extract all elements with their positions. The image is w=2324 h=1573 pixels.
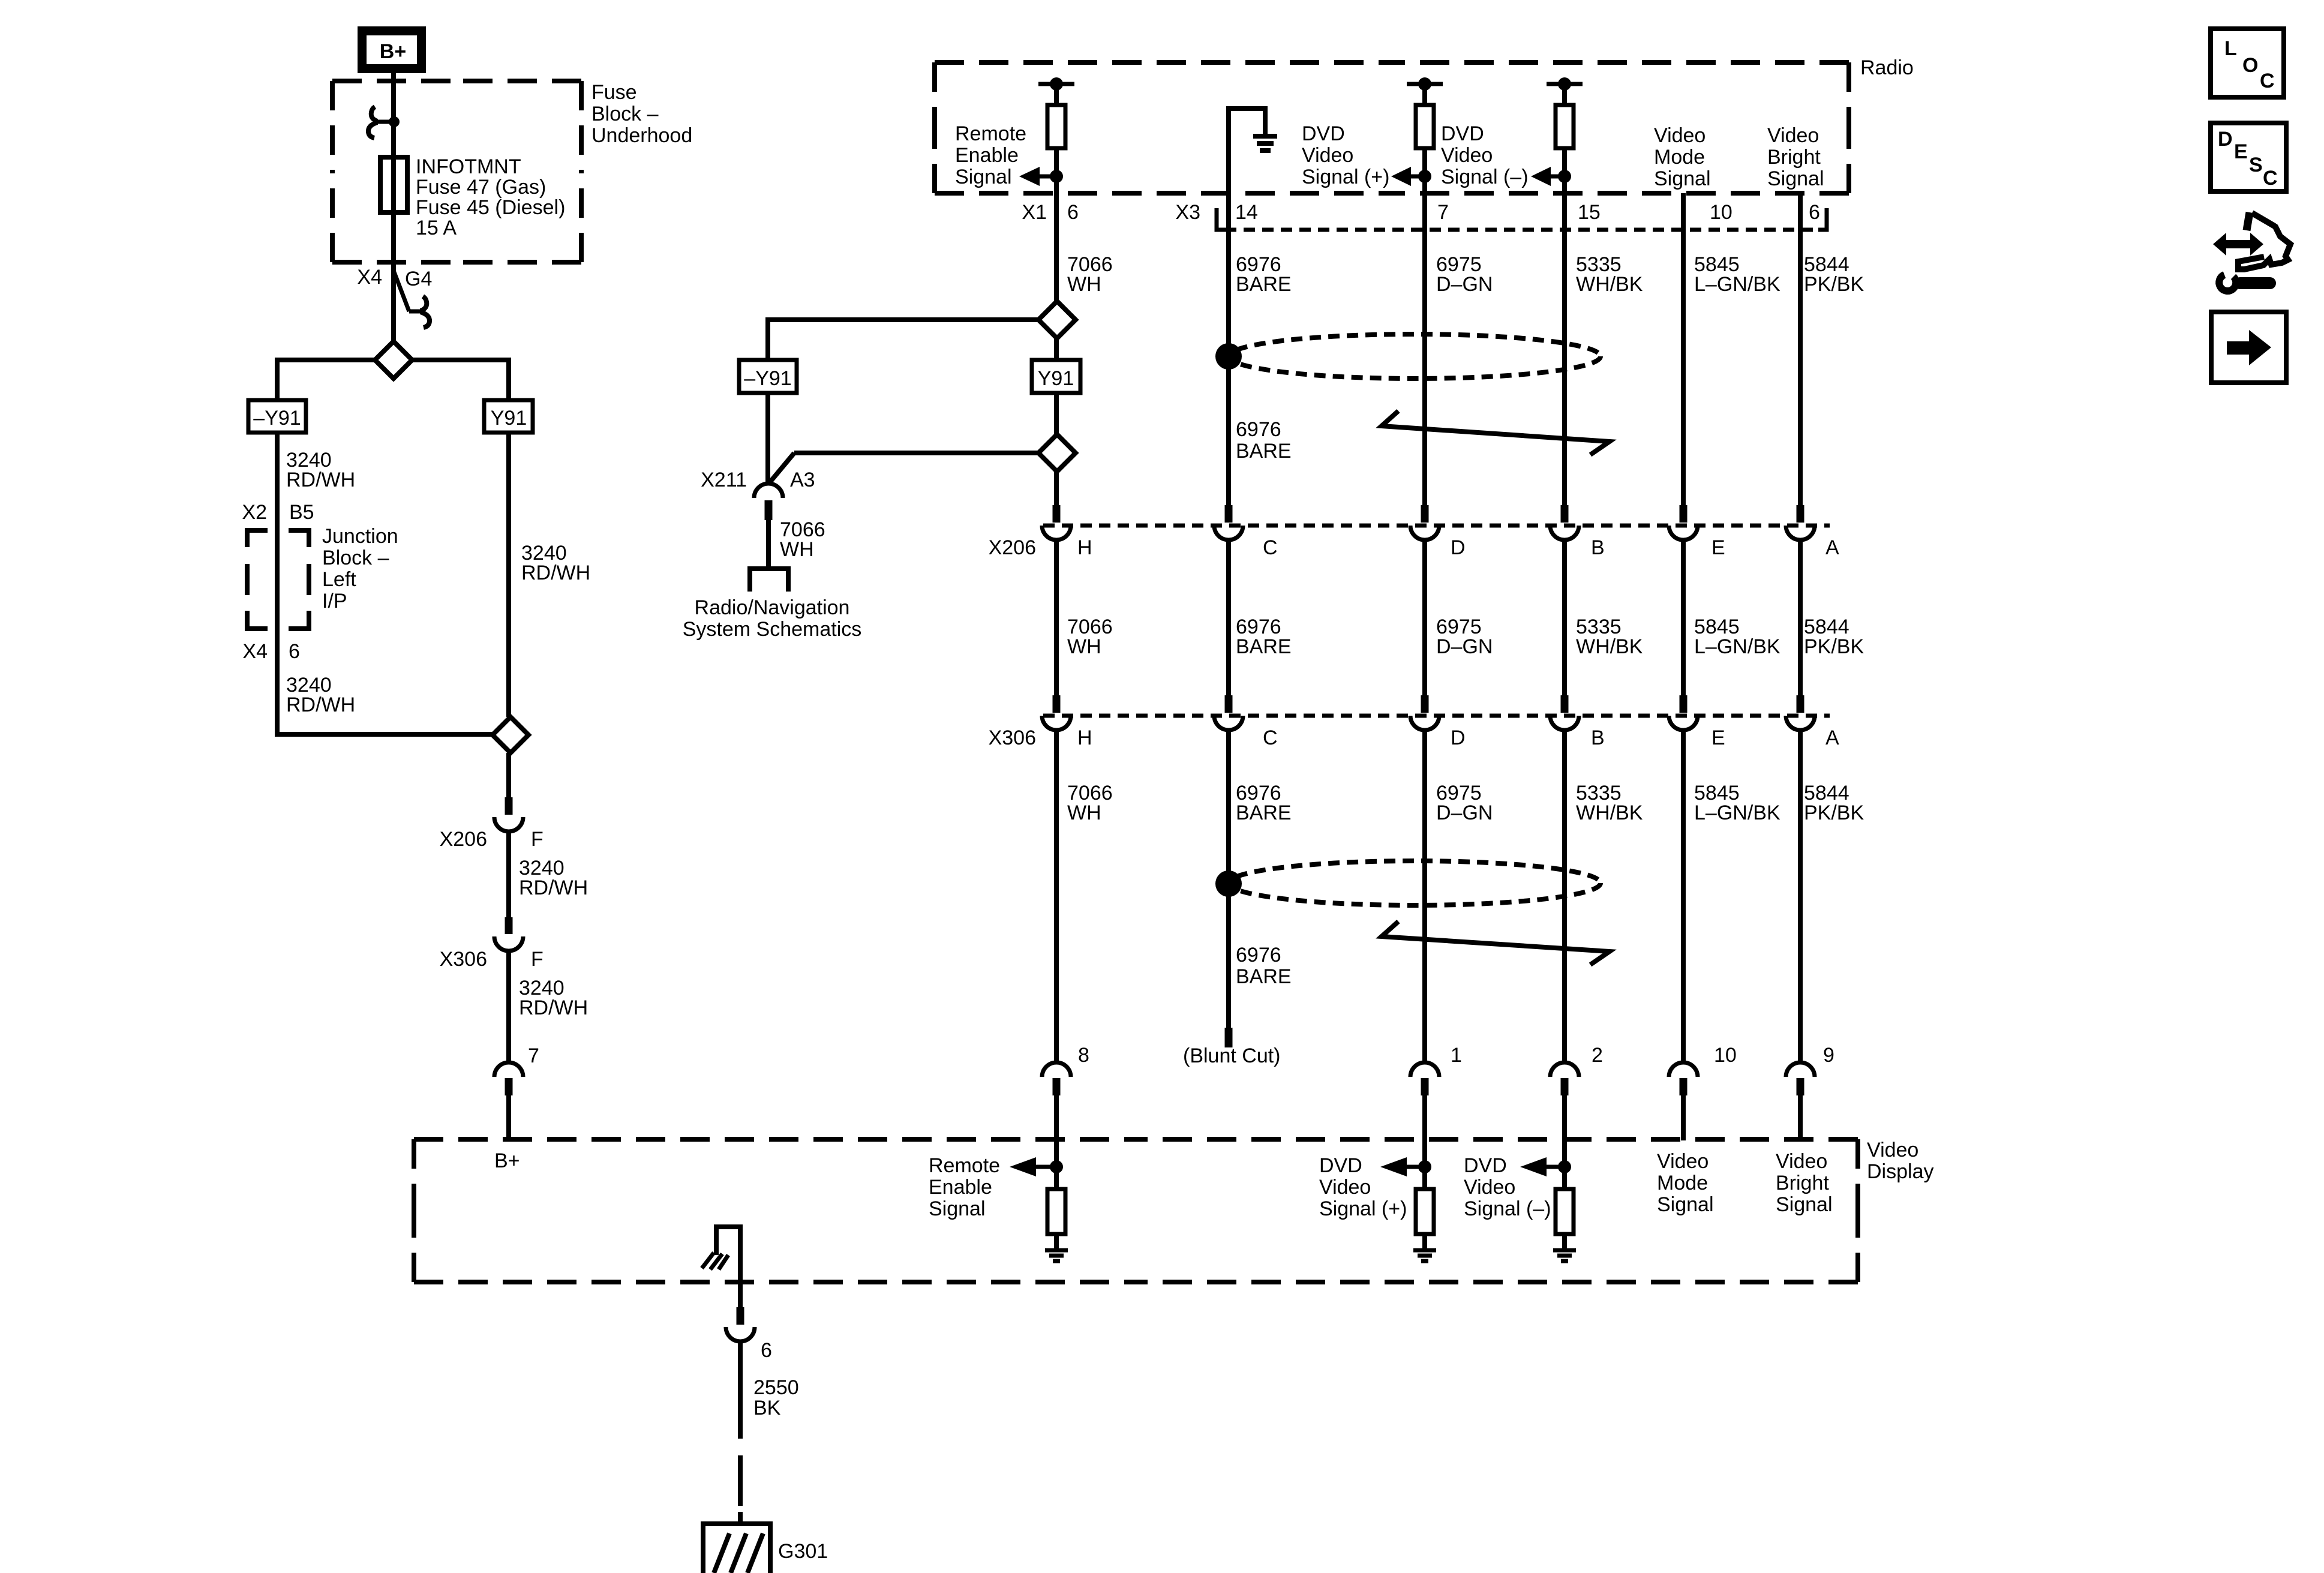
svg-text:Radio: Radio — [1860, 56, 1914, 79]
svg-text:H: H — [1077, 536, 1092, 559]
wire display ground out — [738, 1282, 743, 1307]
wire pin 9 into video display — [1798, 1095, 1803, 1140]
connector video display pin 7 — [494, 1062, 523, 1077]
shield ellipse (lower) — [1229, 861, 1601, 905]
video display internal chassis ground — [716, 1227, 740, 1281]
connector X3 dotted line — [1225, 228, 1818, 232]
svg-text:L–GN/BK: L–GN/BK — [1694, 635, 1780, 658]
wire S2 to X206 — [506, 753, 511, 798]
svg-text:X4: X4 — [242, 640, 268, 663]
ground (DVD- termination) — [1553, 1248, 1576, 1253]
svg-text:Signal: Signal — [955, 166, 1012, 188]
svg-text:BARE: BARE — [1236, 635, 1292, 658]
svg-text:C: C — [1263, 727, 1278, 749]
twisted pair symbol (lower) — [1382, 921, 1610, 965]
radio remote enable signal arrow — [1050, 170, 1063, 183]
connector X206 pin H — [1053, 505, 1061, 523]
wire pin 1 into video display — [1422, 1095, 1427, 1140]
wire pin7 into video display — [506, 1095, 511, 1139]
feed continuation hook symbol — [377, 120, 391, 124]
svg-text:–Y91: –Y91 — [744, 367, 791, 390]
svg-text:Radio/Navigation: Radio/Navigation — [695, 596, 850, 619]
svg-text:2550: 2550 — [753, 1376, 799, 1399]
connector G4 stub with hook — [394, 271, 409, 311]
radio internal rail remote enable — [1038, 82, 1074, 86]
svg-text:L: L — [2224, 37, 2237, 60]
svg-text:DVD: DVD — [1464, 1154, 1507, 1177]
wire pin 8 into video display — [1054, 1095, 1059, 1140]
svg-text:Left: Left — [322, 568, 356, 591]
shield ellipse (upper) — [1229, 334, 1601, 379]
splice diamond S1 — [375, 341, 412, 379]
svg-text:PK/BK: PK/BK — [1804, 801, 1864, 824]
radio internal rail DVD+ — [1407, 82, 1443, 86]
svg-text:Mode: Mode — [1654, 146, 1705, 169]
ground (DVD+ termination) — [1413, 1248, 1436, 1253]
svg-text:Video: Video — [1302, 144, 1353, 167]
radio remote enable resistor — [1054, 84, 1059, 105]
svg-text:Signal (+): Signal (+) — [1302, 166, 1389, 188]
svg-text:D: D — [1451, 727, 1466, 749]
wire 5335 radio to X206 — [1562, 193, 1567, 506]
video display DVD- arrow — [1558, 1160, 1571, 1173]
connector X306 pin F — [505, 917, 513, 934]
svg-text:Y91: Y91 — [1038, 367, 1074, 390]
svg-text:Remote: Remote — [955, 122, 1026, 145]
svg-text:6976: 6976 — [1236, 944, 1281, 966]
svg-text:X306: X306 — [440, 948, 487, 971]
svg-text:Video: Video — [1654, 124, 1706, 147]
svg-text:WH: WH — [1067, 635, 1101, 658]
off-page reference bracket — [750, 569, 788, 592]
svg-text:PK/BK: PK/BK — [1804, 273, 1864, 296]
svg-text:BK: BK — [753, 1397, 781, 1419]
svg-text:7: 7 — [528, 1044, 539, 1067]
svg-text:F: F — [531, 948, 544, 971]
svg-text:INFOTMNT: INFOTMNT — [416, 155, 521, 178]
wire X306F to display conn 7 — [506, 950, 511, 1064]
svg-text:RD/WH: RD/WH — [286, 469, 355, 491]
svg-text:Signal: Signal — [1776, 1193, 1833, 1216]
svg-text:10: 10 — [1710, 201, 1733, 224]
wire 5844 X306 to display — [1798, 730, 1803, 1064]
svg-text:DVD: DVD — [1302, 122, 1345, 145]
svg-text:Bright: Bright — [1776, 1172, 1829, 1194]
battery feed B+ box — [362, 31, 422, 69]
video display DVD+ arrow — [1418, 1160, 1431, 1173]
wire 2550 BK to G301 — [738, 1341, 743, 1439]
svg-text:Mode: Mode — [1657, 1172, 1708, 1194]
video display remote enable resistor — [1054, 1140, 1059, 1189]
svg-text:X211: X211 — [701, 469, 747, 491]
connector X306 dashed line — [1043, 714, 1830, 718]
icon double arrow — [2213, 233, 2263, 256]
svg-text:D–GN: D–GN — [1436, 635, 1493, 658]
splice diamond S3 — [1038, 301, 1076, 338]
svg-text:Block –: Block – — [591, 103, 659, 125]
radio DVD- resistor — [1562, 84, 1567, 105]
wire S4 to X206 — [1054, 472, 1059, 506]
svg-text:Video: Video — [1867, 1139, 1918, 1161]
shield splice dot (lower) — [1215, 870, 1242, 897]
splice junction dot in fuse block — [389, 116, 400, 127]
radio DVD- signal arrow — [1558, 170, 1571, 183]
icon wrench — [2219, 275, 2236, 291]
svg-text:I/P: I/P — [322, 590, 347, 613]
svg-text:DVD: DVD — [1319, 1154, 1362, 1177]
svg-text:B+: B+ — [494, 1149, 520, 1172]
wire X206 to X306 — [1226, 540, 1231, 696]
svg-text:F: F — [531, 828, 544, 851]
svg-text:Enable: Enable — [929, 1176, 992, 1199]
splice diamond S4 — [1038, 434, 1076, 472]
svg-text:X1: X1 — [1022, 201, 1047, 224]
svg-text:Remote: Remote — [929, 1154, 1000, 1177]
radio internal ground on shield drain — [1229, 109, 1265, 193]
connector video display pin 1 — [1410, 1062, 1439, 1077]
wire X211 slant to S4 — [770, 453, 794, 482]
wire 6976 bare radio to X206 — [1226, 193, 1231, 506]
svg-text:B: B — [1591, 727, 1605, 749]
wire pin 2 into video display — [1562, 1095, 1567, 1140]
svg-text:A3: A3 — [790, 469, 815, 491]
svg-text:Fuse 47 (Gas): Fuse 47 (Gas) — [416, 176, 546, 199]
blunt cut terminal — [1225, 1028, 1233, 1047]
ground (remote enable termination) — [1045, 1248, 1068, 1253]
svg-text:Signal (–): Signal (–) — [1441, 166, 1529, 188]
svg-text:RD/WH: RD/WH — [521, 562, 590, 584]
wire X206 to X306 — [1562, 540, 1567, 696]
radio DVD+ resistor — [1422, 84, 1427, 105]
radio box — [935, 60, 1392, 65]
package option -Y91 box middle — [739, 360, 797, 393]
svg-text:Fuse 45 (Diesel): Fuse 45 (Diesel) — [416, 196, 565, 219]
shield splice dot (upper) — [1215, 343, 1242, 370]
wire X206 to X306 — [1054, 540, 1059, 696]
svg-text:Video: Video — [1464, 1176, 1515, 1199]
svg-text:Block –: Block – — [322, 547, 389, 569]
svg-text:BARE: BARE — [1236, 440, 1292, 463]
svg-text:Junction: Junction — [322, 525, 398, 548]
wire remote enable radio to splice — [1054, 193, 1059, 301]
wire 7066 X306 to display — [1054, 730, 1059, 1064]
wire pin 10 into video display — [1681, 1095, 1686, 1140]
ground G301 symbol — [703, 1521, 770, 1526]
svg-text:WH: WH — [780, 538, 814, 561]
svg-text:6: 6 — [1809, 201, 1820, 224]
svg-text:RD/WH: RD/WH — [519, 996, 588, 1019]
connector display ground pin 6 — [737, 1307, 744, 1325]
video display DVD- resistor — [1562, 1140, 1567, 1189]
wire 6976 X306 to blunt cut — [1226, 730, 1231, 1028]
icon forward arrow box — [2211, 312, 2286, 383]
svg-text:8: 8 — [1078, 1044, 1089, 1067]
svg-text:H: H — [1077, 727, 1092, 749]
wire S3 to Y91 middle — [1054, 338, 1059, 360]
connector video display pin 2 — [1550, 1062, 1579, 1077]
svg-text:X2: X2 — [242, 501, 267, 524]
fuse block - underhood box — [332, 79, 457, 83]
wire -Y91 to X211 — [765, 393, 770, 485]
connector X306 pin A — [1797, 695, 1804, 713]
wire B+ to fuse — [391, 73, 396, 157]
package option Y91 box left — [484, 400, 533, 433]
svg-text:Display: Display — [1867, 1160, 1933, 1183]
wire -Y91 to junction block — [277, 433, 511, 734]
svg-text:Signal: Signal — [1657, 1193, 1714, 1216]
connector X306 pin E — [1680, 695, 1688, 713]
wire X211 to off-page — [766, 520, 771, 569]
wire X206 to X306 — [1681, 540, 1686, 696]
svg-text:14: 14 — [1235, 201, 1258, 224]
wire 5335 X306 to display — [1562, 730, 1567, 1064]
package option Y91 box middle — [1032, 360, 1080, 393]
svg-text:6976: 6976 — [1236, 418, 1281, 441]
svg-text:X206: X206 — [989, 536, 1036, 559]
svg-text:WH: WH — [1067, 801, 1101, 824]
svg-text:Bright: Bright — [1767, 146, 1821, 169]
svg-text:C: C — [1263, 536, 1278, 559]
connector X206 pin A — [1797, 505, 1804, 523]
connector X306 pin H — [1053, 695, 1061, 713]
svg-text:9: 9 — [1823, 1044, 1834, 1067]
fuse INFOTMNT 15A — [380, 157, 407, 212]
package option -Y91 box left — [248, 400, 306, 433]
connector X206 pin E — [1680, 505, 1688, 523]
svg-text:1: 1 — [1451, 1044, 1462, 1067]
svg-text:BARE: BARE — [1236, 965, 1292, 988]
svg-text:C: C — [2263, 167, 2278, 190]
twisted pair symbol (upper) — [1382, 411, 1610, 455]
svg-text:BARE: BARE — [1236, 273, 1292, 296]
wire 5844 radio to X206 — [1798, 193, 1803, 506]
svg-text:C: C — [2260, 70, 2275, 92]
svg-text:6: 6 — [761, 1339, 772, 1362]
svg-text:D–GN: D–GN — [1436, 801, 1493, 824]
wire 6975 radio to X206 — [1422, 193, 1427, 506]
svg-text:(Blunt Cut): (Blunt Cut) — [1183, 1044, 1281, 1067]
connector X3 bracket right — [1818, 208, 1827, 230]
svg-text:Signal: Signal — [929, 1197, 986, 1220]
svg-text:Video: Video — [1657, 1150, 1709, 1173]
svg-text:Signal (–): Signal (–) — [1464, 1197, 1551, 1220]
svg-text:10: 10 — [1714, 1044, 1737, 1067]
svg-text:6: 6 — [1067, 201, 1079, 224]
svg-text:Signal: Signal — [1767, 167, 1824, 190]
icon LOC box — [2211, 29, 2284, 97]
connector X206 pin C — [1225, 505, 1233, 523]
svg-text:WH/BK: WH/BK — [1576, 635, 1643, 658]
wire X206 to X306 — [1422, 540, 1427, 696]
svg-text:Video: Video — [1319, 1176, 1371, 1199]
svg-text:–Y91: –Y91 — [253, 407, 301, 430]
svg-text:D: D — [1451, 536, 1466, 559]
wire through fuse down to splice — [391, 157, 396, 343]
wire 6975 X306 to display — [1422, 730, 1427, 1064]
wire 5845 radio to X206 — [1681, 193, 1686, 506]
connector X206 pin D — [1421, 505, 1429, 523]
svg-text:X206: X206 — [440, 828, 487, 851]
svg-text:WH/BK: WH/BK — [1576, 273, 1643, 296]
svg-text:G301: G301 — [778, 1540, 828, 1563]
video display remote enable arrow — [1050, 1160, 1063, 1173]
svg-text:15 A: 15 A — [416, 217, 457, 239]
svg-text:PK/BK: PK/BK — [1804, 635, 1864, 658]
svg-text:Video: Video — [1441, 144, 1493, 167]
svg-text:S: S — [2249, 154, 2263, 176]
wire Y91 to splice S2 — [506, 433, 511, 717]
svg-text:A: A — [1825, 536, 1839, 559]
svg-text:Signal: Signal — [1654, 167, 1711, 190]
connector X206 pin F — [505, 797, 513, 815]
connector X211 pin A3 — [754, 484, 783, 498]
svg-text:Video: Video — [1767, 124, 1819, 147]
splice diamond S2 — [493, 717, 529, 753]
svg-text:15: 15 — [1578, 201, 1601, 224]
icon DESC box — [2211, 123, 2286, 191]
svg-text:L–GN/BK: L–GN/BK — [1694, 273, 1780, 296]
svg-text:BARE: BARE — [1236, 801, 1292, 824]
svg-text:6: 6 — [289, 640, 300, 663]
svg-text:O: O — [2242, 54, 2258, 77]
svg-text:E: E — [1712, 727, 1725, 749]
wire splice to -Y91 branch — [768, 320, 1038, 360]
svg-text:Video: Video — [1776, 1150, 1827, 1173]
svg-text:A: A — [1825, 727, 1839, 749]
svg-text:B5: B5 — [289, 501, 314, 524]
radio DVD+ signal arrow — [1418, 170, 1431, 183]
svg-text:Signal (+): Signal (+) — [1319, 1197, 1407, 1220]
connector X306 pin C — [1225, 695, 1233, 713]
radio internal rail DVD- — [1547, 82, 1583, 86]
svg-text:DVD: DVD — [1441, 122, 1484, 145]
junction block - left I/P bracket left — [247, 530, 268, 547]
svg-text:RD/WH: RD/WH — [286, 694, 355, 716]
wire X206 to X306 — [1798, 540, 1803, 696]
junction block - left I/P bracket right — [289, 530, 309, 547]
svg-text:B+: B+ — [380, 40, 406, 63]
svg-text:X4: X4 — [357, 266, 382, 289]
svg-text:B: B — [1591, 536, 1605, 559]
svg-text:Underhood: Underhood — [591, 124, 692, 147]
svg-text:2: 2 — [1592, 1044, 1603, 1067]
svg-text:D–GN: D–GN — [1436, 273, 1493, 296]
wire 5845 X306 to display — [1681, 730, 1686, 1064]
connector X206 pin B — [1561, 505, 1569, 523]
splice wire split horizontal — [277, 360, 509, 400]
connector X206 dashed line — [1043, 524, 1830, 528]
svg-text:X306: X306 — [989, 727, 1036, 749]
svg-text:System Schematics: System Schematics — [683, 618, 862, 641]
svg-text:WH: WH — [1067, 273, 1101, 296]
connector video display pin 8 — [1042, 1062, 1071, 1077]
svg-text:D: D — [2218, 128, 2233, 151]
svg-text:L–GN/BK: L–GN/BK — [1694, 801, 1780, 824]
svg-text:E: E — [1712, 536, 1725, 559]
connector video display pin 9 — [1786, 1062, 1815, 1077]
connector X306 pin B — [1561, 695, 1569, 713]
svg-text:RD/WH: RD/WH — [519, 876, 588, 899]
svg-text:G4: G4 — [405, 268, 432, 290]
svg-text:Fuse: Fuse — [591, 81, 637, 104]
icon panel outline — [2247, 212, 2250, 230]
connector X3 bracket left — [1217, 208, 1225, 230]
svg-text:Enable: Enable — [955, 144, 1019, 167]
connector X306 pin D — [1421, 695, 1429, 713]
svg-text:X3: X3 — [1175, 201, 1200, 224]
svg-text:Y91: Y91 — [491, 407, 527, 430]
wire Y91 to splice S4 — [1054, 393, 1059, 434]
svg-text:E: E — [2234, 140, 2248, 163]
svg-text:WH/BK: WH/BK — [1576, 801, 1643, 824]
video display box — [414, 1137, 1136, 1142]
svg-text:7: 7 — [1437, 201, 1449, 224]
wire X206F to X306F — [506, 830, 511, 917]
video display DVD+ resistor — [1422, 1140, 1427, 1189]
connector video display pin 10 — [1669, 1062, 1698, 1077]
